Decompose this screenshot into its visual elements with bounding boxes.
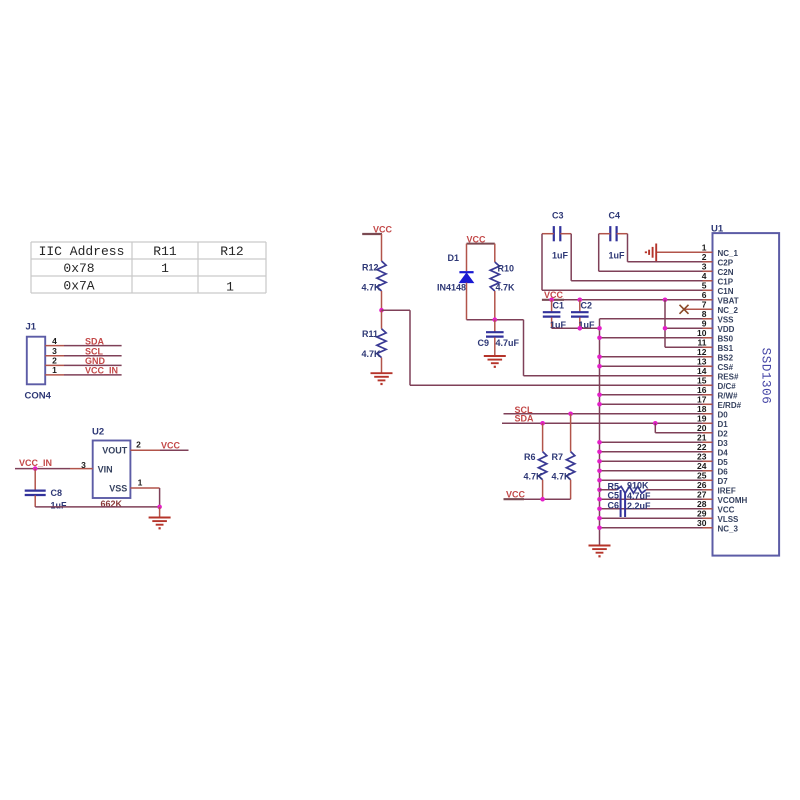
capacitor C2 1uF <box>571 300 595 330</box>
svg-text:4.7uF: 4.7uF <box>496 338 520 348</box>
power VCC_IN label <box>19 458 52 468</box>
svg-text:J1: J1 <box>26 322 37 333</box>
capacitor C8 <box>25 469 67 511</box>
wire bus to U1 pin 27 VCOMH <box>597 497 712 502</box>
wire bus to U1 pin 16 R/W# <box>597 393 712 398</box>
pin 7 NC_2 of U1 <box>702 300 739 315</box>
node R12/R11 divider <box>379 308 384 313</box>
pin 20 D2 of U1 <box>697 423 728 438</box>
svg-text:4.7K: 4.7K <box>524 472 544 482</box>
node VDD junction <box>663 326 668 331</box>
svg-text:VBAT: VBAT <box>718 296 739 305</box>
pin 30 NC_3 of U1 <box>697 518 738 533</box>
svg-text:1: 1 <box>138 478 143 488</box>
svg-text:29: 29 <box>697 509 707 519</box>
svg-text:2: 2 <box>702 252 707 262</box>
node SCL/R7 <box>568 412 573 417</box>
pin 5 C1N of U1 <box>702 281 734 296</box>
svg-text:1: 1 <box>161 261 169 276</box>
regulator U2 body <box>93 441 131 499</box>
wire bus to U1 pin 13 CS# <box>597 364 712 369</box>
svg-text:CS#: CS# <box>718 363 734 372</box>
svg-text:VIN: VIN <box>98 464 113 474</box>
wire reset node horizontal <box>467 319 524 321</box>
svg-text:C1P: C1P <box>718 277 734 286</box>
pin 26 IREF of U1 <box>697 480 736 495</box>
svg-text:0x78: 0x78 <box>63 261 94 276</box>
power VCC at U2 VOUT <box>161 441 181 451</box>
pin 21 D3 of U1 <box>697 433 728 448</box>
svg-text:2.2uF: 2.2uF <box>627 501 651 511</box>
wire J1 pin 4 net SDA <box>45 336 121 347</box>
capacitor C4 1uF <box>599 211 628 261</box>
svg-text:1: 1 <box>52 365 57 375</box>
svg-text:6: 6 <box>702 290 707 300</box>
wire R12 to node <box>381 291 383 310</box>
pin 22 D4 of U1 <box>697 442 728 457</box>
wire bus to U1 pin 23 D5 <box>597 459 712 464</box>
svg-text:D0: D0 <box>718 410 729 419</box>
pin 14 RES# of U1 <box>697 366 739 381</box>
wire R11 to ground <box>381 358 383 373</box>
pin 18 D0 of U1 <box>697 404 728 419</box>
wire bus to U1 pin 29 VLSS <box>597 516 712 521</box>
svg-text:C6: C6 <box>608 500 620 510</box>
resistor R6 4.7K <box>524 423 547 499</box>
wire C1/C2 ground rail to bus <box>552 327 600 329</box>
svg-text:15: 15 <box>697 376 707 386</box>
svg-text:8: 8 <box>702 309 707 319</box>
ground bus vertical <box>599 319 601 545</box>
diode D1 IN4148 <box>437 244 474 293</box>
svg-text:3: 3 <box>81 460 86 470</box>
svg-text:VOUT: VOUT <box>102 445 128 455</box>
svg-text:C1N: C1N <box>718 287 734 296</box>
wire bus to U1 pin 30 NC_3 <box>597 526 712 531</box>
svg-text:4.7K: 4.7K <box>362 283 382 293</box>
svg-text:4.7K: 4.7K <box>552 472 572 482</box>
wire C3 left to U1 pin5 C1N <box>542 234 713 291</box>
svg-text:VDD: VDD <box>718 325 735 334</box>
capacitor C5 4.7uF <box>608 490 652 517</box>
svg-text:C2P: C2P <box>718 258 734 267</box>
svg-text:22: 22 <box>697 442 707 452</box>
svg-text:IREF: IREF <box>718 486 736 495</box>
connector J1 body CON4 <box>25 337 52 402</box>
wire bus to U1 pin 22 D4 <box>597 450 712 455</box>
svg-text:24: 24 <box>697 461 707 471</box>
svg-text:D1: D1 <box>718 420 729 429</box>
svg-text:16: 16 <box>697 385 707 395</box>
svg-text:12: 12 <box>697 347 707 357</box>
wire J1 pin 1 net VCC_IN <box>45 365 121 376</box>
pin 16 R/W# of U1 <box>697 385 738 400</box>
wire U1 pin7 NC_2 <box>684 308 713 310</box>
node SDA to D2 tie <box>653 421 658 426</box>
svg-text:NC_2: NC_2 <box>718 306 739 315</box>
IC U1 designator <box>711 223 724 234</box>
svg-text:23: 23 <box>697 452 707 462</box>
svg-text:D5: D5 <box>718 458 729 467</box>
svg-text:4.7K: 4.7K <box>496 283 516 293</box>
IC U1 SSD1306 body <box>713 233 780 555</box>
wire C4 left to U1 pin3 C2N <box>599 234 713 272</box>
svg-text:25: 25 <box>697 471 707 481</box>
svg-text:SCL: SCL <box>85 347 104 357</box>
svg-text:R7: R7 <box>552 452 564 462</box>
svg-text:VCOMH: VCOMH <box>718 496 748 505</box>
svg-text:C2N: C2N <box>718 268 734 277</box>
wire J1 pin 3 net SCL <box>45 346 121 357</box>
IIC address table <box>31 242 266 294</box>
svg-text:1uF: 1uF <box>552 251 569 261</box>
svg-text:NC_1: NC_1 <box>718 249 739 258</box>
svg-text:10: 10 <box>697 328 707 338</box>
svg-text:D7: D7 <box>718 477 729 486</box>
pin 13 CS# of U1 <box>697 357 734 372</box>
svg-text:VSS: VSS <box>718 315 735 324</box>
svg-text:30: 30 <box>697 518 707 528</box>
pin 19 D1 of U1 <box>697 414 728 429</box>
svg-text:3: 3 <box>702 262 707 272</box>
pin 27 VCOMH of U1 <box>697 490 747 505</box>
svg-text:C4: C4 <box>609 211 621 221</box>
svg-text:28: 28 <box>697 499 707 509</box>
pin 24 D6 of U1 <box>697 461 728 476</box>
node C2 bottom <box>578 326 583 331</box>
svg-text:BS0: BS0 <box>718 334 734 343</box>
ground below R11 <box>371 373 393 384</box>
svg-text:R12: R12 <box>220 244 243 259</box>
svg-text:R11: R11 <box>153 244 177 259</box>
pin 1 NC_1 of U1 <box>702 243 739 258</box>
svg-text:SDA: SDA <box>85 336 105 346</box>
wire reset node to U1 pin14 RES# <box>524 320 713 376</box>
wire SDA to U1 pin19 D1 <box>502 414 713 424</box>
node bus IREF row <box>597 488 602 493</box>
svg-text:SSD1306: SSD1306 <box>759 348 773 405</box>
node R6 bottom <box>540 497 545 502</box>
resistor R5 910K <box>600 481 713 494</box>
power VCC rail to U1 pin6 VBAT <box>542 290 713 300</box>
pin 10 BS0 of U1 <box>697 328 734 343</box>
wire U1 pin1 NC_1 <box>656 251 712 253</box>
svg-text:9: 9 <box>702 319 707 329</box>
capacitor C6 2.2uF <box>608 492 652 517</box>
wire bus to U1 pin 10 BS0 <box>597 336 712 341</box>
label 662K <box>101 499 123 509</box>
svg-text:4.7uF: 4.7uF <box>627 491 651 501</box>
svg-text:4.7K: 4.7K <box>362 349 382 359</box>
node U2 ground junction <box>157 505 162 510</box>
svg-text:19: 19 <box>697 414 707 424</box>
ground at bus bottom <box>589 546 611 557</box>
wire bus to U1 pin 21 D3 <box>597 440 712 445</box>
wire C3 right to U1 pin4 C1P <box>571 234 712 281</box>
svg-text:C5: C5 <box>608 491 620 501</box>
svg-text:NC_3: NC_3 <box>718 524 739 533</box>
svg-text:4: 4 <box>702 271 707 281</box>
node C1 top <box>549 298 554 303</box>
resistor R10 4.7K <box>490 244 515 293</box>
capacitor C1 1uF <box>543 300 567 330</box>
svg-text:GND: GND <box>85 356 106 366</box>
node SDA/R6 <box>540 421 545 426</box>
pin 15 D/C# of U1 <box>697 376 736 391</box>
svg-text:2: 2 <box>52 356 57 366</box>
svg-text:D1: D1 <box>448 253 460 263</box>
svg-text:18: 18 <box>697 404 707 414</box>
wire R10 to node <box>494 291 496 320</box>
power VCC above D1/R10 <box>467 234 487 244</box>
svg-text:U2: U2 <box>92 426 104 437</box>
wire VBAT to VDD to BS1 <box>665 300 713 348</box>
svg-text:D6: D6 <box>718 467 729 476</box>
svg-text:1: 1 <box>702 243 707 253</box>
svg-text:1uF: 1uF <box>609 251 626 261</box>
svg-text:3: 3 <box>52 346 57 356</box>
wire C4 right to U1 pin2 C2P <box>628 234 713 262</box>
pin 2 C2P of U1 <box>702 252 734 267</box>
svg-text:IN4148: IN4148 <box>437 283 466 293</box>
wire U1 pin8 VSS to bus <box>600 318 713 320</box>
wire bus to U1 pin 25 D7 <box>597 478 712 483</box>
wire bus to U1 pin 28 VCC <box>597 507 712 512</box>
pin 12 BS2 of U1 <box>697 347 734 362</box>
ground below C9 <box>484 356 506 367</box>
svg-text:4: 4 <box>52 336 57 346</box>
svg-text:21: 21 <box>697 433 707 443</box>
svg-text:14: 14 <box>697 366 707 376</box>
svg-text:SDA: SDA <box>515 414 535 424</box>
pin 23 D5 of U1 <box>697 452 728 467</box>
regulator U2 designator <box>92 426 104 437</box>
svg-text:E/RD#: E/RD# <box>718 401 742 410</box>
svg-text:VCC: VCC <box>161 441 181 451</box>
resistor R11 4.7K <box>362 310 387 359</box>
pin 9 VDD of U1 <box>702 319 735 334</box>
svg-text:1uF: 1uF <box>51 500 68 510</box>
wire D1 anode down <box>466 283 468 320</box>
node VBAT branch <box>663 298 668 303</box>
svg-text:C3: C3 <box>552 211 564 221</box>
svg-text:13: 13 <box>697 357 707 367</box>
svg-text:BS2: BS2 <box>718 353 734 362</box>
wire bus to U1 pin 12 BS2 <box>597 355 712 360</box>
svg-text:17: 17 <box>697 395 707 405</box>
svg-text:D2: D2 <box>718 429 729 438</box>
svg-text:26: 26 <box>697 480 707 490</box>
svg-text:R12: R12 <box>362 263 379 273</box>
svg-text:11: 11 <box>698 338 707 348</box>
svg-text:20: 20 <box>697 423 707 433</box>
svg-text:IIC Address: IIC Address <box>39 244 125 259</box>
pin 25 D7 of U1 <box>697 471 728 486</box>
svg-text:C1: C1 <box>553 301 565 311</box>
wire U1 pin9 VDD <box>665 327 713 329</box>
svg-text:BS1: BS1 <box>718 344 734 353</box>
pin 8 VSS of U1 <box>702 309 734 324</box>
wire VCC rail D1 to R10 <box>467 243 495 245</box>
svg-text:R/W#: R/W# <box>718 391 739 400</box>
svg-text:VCC_IN: VCC_IN <box>85 366 118 376</box>
svg-text:R6: R6 <box>524 452 536 462</box>
power VCC above R12 <box>362 225 392 235</box>
svg-text:0x7A: 0x7A <box>63 278 94 293</box>
resistor R7 4.7K <box>552 414 575 499</box>
svg-text:VCC: VCC <box>718 505 735 514</box>
svg-text:1: 1 <box>226 279 234 294</box>
resistor R12 4.7K <box>362 261 387 293</box>
svg-text:2: 2 <box>136 440 141 450</box>
svg-text:RES#: RES# <box>718 372 739 381</box>
wire SCL to U1 pin18 D0 <box>504 405 713 415</box>
svg-text:R11: R11 <box>362 329 378 339</box>
wire U2 pin1 VSS <box>130 478 159 507</box>
connector J1 designator <box>26 322 37 333</box>
svg-text:7: 7 <box>702 300 707 310</box>
pin 4 C1P of U1 <box>702 271 734 286</box>
svg-text:C8: C8 <box>51 488 63 498</box>
ground below U2 <box>149 507 171 528</box>
svg-text:D/C#: D/C# <box>718 382 737 391</box>
node C2 top <box>578 298 583 303</box>
svg-text:VCC: VCC <box>506 489 526 499</box>
pin 29 VLSS of U1 <box>697 509 739 524</box>
wire D1 net to U1 pin20 D2 <box>655 423 712 433</box>
svg-text:CON4: CON4 <box>25 391 52 402</box>
svg-text:VSS: VSS <box>109 483 127 493</box>
wire U2 pin2 VOUT to VCC <box>130 440 188 451</box>
wire divider node to U1 pin15 D/C# <box>382 310 713 385</box>
no-ERC X marker <box>680 305 689 314</box>
svg-text:C9: C9 <box>478 338 490 348</box>
wire bus to U1 pin 17 E/RD# <box>597 402 712 407</box>
pin 28 VCC of U1 <box>697 499 735 514</box>
wire VCC to R12 <box>381 234 383 261</box>
svg-text:27: 27 <box>697 490 707 500</box>
pin 17 E/RD# of U1 <box>697 395 742 410</box>
svg-text:D3: D3 <box>718 439 729 448</box>
svg-text:5: 5 <box>702 281 707 291</box>
node VCC_IN junction <box>33 466 38 471</box>
wire J1 pin 2 net GND <box>45 356 121 367</box>
svg-text:VLSS: VLSS <box>718 515 740 524</box>
svg-text:D4: D4 <box>718 448 729 457</box>
node D1/R10/C9 <box>493 317 498 322</box>
svg-text:C2: C2 <box>581 301 593 311</box>
pin 3 C2N of U1 <box>702 262 734 277</box>
wire bus to U1 pin 24 D6 <box>597 469 712 474</box>
rotated ground symbol at pin1 <box>646 244 656 262</box>
wire VCC_IN to U2 pin3 VIN <box>15 460 93 470</box>
capacitor C3 1uF <box>542 211 571 261</box>
pin 11 BS1 of U1 <box>698 338 734 353</box>
capacitor C9 4.7uF <box>478 320 520 356</box>
svg-text:R10: R10 <box>498 263 515 273</box>
pin 6 VBAT of U1 <box>702 290 739 305</box>
power VCC rail under R6/R7 <box>504 489 571 499</box>
wire C8 to VSS bottom rail <box>35 506 159 508</box>
node bus C1C2 rail <box>597 326 602 331</box>
svg-text:910K: 910K <box>627 481 649 491</box>
